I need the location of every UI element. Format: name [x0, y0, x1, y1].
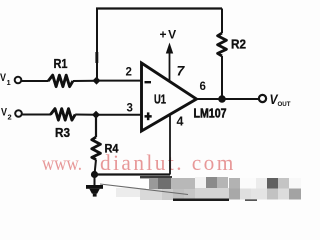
svg-text:R3: R3 — [55, 125, 70, 140]
pin 6 output wire — [197, 98, 259, 100]
wire ground node to pin 4 corner — [95, 173, 171, 175]
wire R3 to node C — [75, 114, 96, 116]
label V1 — [0, 72, 11, 87]
scan streak diagonal line — [100, 184, 188, 195]
svg-text:6: 6 — [200, 81, 206, 93]
svg-text:www.: www. — [42, 153, 82, 176]
resistor R1 — [48, 75, 73, 86]
svg-text:dianlut. com: dianlut. com — [100, 151, 236, 175]
pin 4 stub wire — [169, 115, 171, 175]
resistor R3 — [51, 109, 76, 120]
svg-text:U1: U1 — [154, 92, 166, 107]
svg-text:4: 4 — [177, 115, 184, 129]
wire node A to op-amp pin 2 — [97, 80, 143, 82]
wire R2 to output node — [221, 56, 223, 99]
feedback wire vertical — [95, 9, 98, 81]
svg-text:R4: R4 — [105, 142, 119, 156]
label VOUT — [270, 92, 291, 108]
wire V1 to R1 — [22, 80, 49, 82]
mosaic censored strip bottom right — [116, 176, 301, 201]
svg-text:OUT: OUT — [278, 101, 291, 108]
svg-text:7: 7 — [177, 63, 186, 79]
node A junction dot — [93, 77, 101, 85]
output terminal VOUT — [259, 95, 266, 102]
wire top corner down to R2 — [221, 9, 223, 34]
svg-text:+V: +V — [160, 28, 178, 42]
feedback wire top horizontal — [96, 7, 222, 9]
input terminal V2 — [15, 110, 22, 117]
minus sign at pin 2 input — [145, 81, 152, 83]
wire node C to op-amp pin 3 — [96, 114, 142, 116]
svg-text:1: 1 — [7, 78, 11, 87]
svg-text:R2: R2 — [231, 37, 246, 52]
svg-text:R1: R1 — [54, 56, 68, 71]
node C junction dot — [92, 111, 100, 119]
plus sign at pin 3 input — [145, 112, 152, 120]
wire V2 to R3 — [22, 114, 51, 116]
wire node C down to R4 — [95, 115, 97, 137]
svg-text:2: 2 — [126, 67, 132, 79]
ground — [86, 175, 103, 197]
svg-text:3: 3 — [127, 103, 133, 115]
input terminal V1 — [15, 77, 22, 84]
label V2 — [1, 107, 12, 122]
svg-text:2: 2 — [8, 113, 12, 122]
wire R4 to ground node — [95, 160, 97, 175]
resistor R4 — [92, 137, 101, 160]
wire R1 to node A — [73, 80, 97, 82]
svg-text:LM107: LM107 — [194, 106, 227, 121]
+V supply arrowhead — [166, 43, 173, 54]
watermark www.dianlut.com — [42, 151, 236, 176]
node D ground junction dot — [91, 171, 98, 178]
op-amp U1 triangle — [142, 63, 197, 131]
node B output junction dot — [218, 95, 226, 103]
resistor R2 — [218, 33, 227, 56]
pin 7 stub wire — [169, 52, 171, 82]
